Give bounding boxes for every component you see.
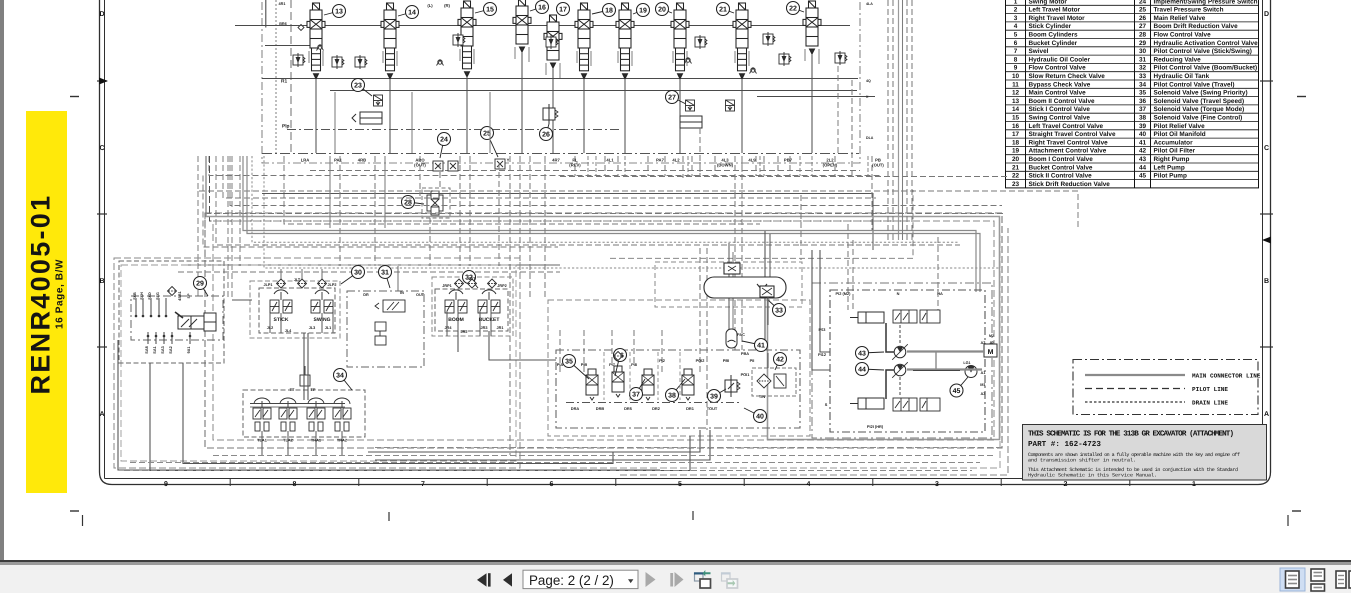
next view button (disabled) [721,572,738,588]
wire valve port left [672,51,674,63]
svg-text:30: 30 [1139,48,1147,55]
svg-text:Boom II Control Valve: Boom II Control Valve [1029,98,1095,105]
valve 32 outer box [432,277,513,336]
legend box [1073,360,1258,415]
pilot oil filter 42 [757,374,786,388]
svg-text:29: 29 [196,281,204,288]
valve 14 Stick I control [381,3,399,79]
svg-text:Boom Cylinders: Boom Cylinders [1029,32,1078,39]
svg-text:6: 6 [1014,40,1018,47]
wire [307,333,309,400]
svg-text:19: 19 [639,8,647,15]
svg-text:MAIN CONNECTOR LINE: MAIN CONNECTOR LINE [1192,373,1261,380]
wire drop [800,195,802,260]
wire bus path [227,156,229,300]
svg-text:JLP2: JLP2 [327,283,336,287]
svg-text:Pilot Control Valve (Stick/Swi: Pilot Control Valve (Stick/Swing) [1154,48,1252,55]
svg-text:D: D [99,11,104,18]
item callout 41 [742,339,768,352]
wire [812,250,830,370]
svg-text:Main Control Valve: Main Control Valve [1029,90,1087,97]
svg-text:24: 24 [440,137,448,144]
svg-text:DR2: DR2 [652,406,661,411]
wire bus path [197,191,199,296]
svg-text:PILOT LINE: PILOT LINE [1192,386,1228,393]
svg-text:LRA: LRA [301,158,310,163]
svg-text:Pilot Relief Valve: Pilot Relief Valve [1154,123,1206,130]
pilot oil manifold 40 box [556,350,800,428]
valve 29 outer box [119,261,224,363]
wire port [150,298,152,316]
item callout 23 [352,79,373,97]
svg-text:PI2 (M2): PI2 (M2) [836,291,852,296]
pump group enclosure [830,290,985,432]
wire drop [892,0,894,240]
wire valve drop [466,77,468,153]
svg-text:Swivel: Swivel [1029,48,1049,55]
bottom toolbar [0,565,1351,593]
wire [303,333,305,400]
svg-text:27: 27 [668,95,676,102]
svg-text:DR5: DR5 [624,406,633,411]
wire vertical gray 2 [898,0,900,240]
wire tank to accumulator [767,297,769,325]
wire drop [755,156,757,176]
item callout 25 [481,127,499,158]
svg-text:32: 32 [1139,65,1147,72]
crop mark top-left [70,96,79,98]
valve small right [726,100,735,111]
junction dot [189,335,192,338]
wire lower bus [124,470,972,472]
svg-text:A: A [99,411,104,418]
wire drop [489,92,491,153]
wire tower drop 32 [490,311,492,336]
crop mark top-right [1297,96,1306,98]
svg-text:Straight Travel Control Valve: Straight Travel Control Valve [1029,131,1116,138]
svg-text:17: 17 [1012,131,1020,138]
port cell divider [867,156,869,176]
wire drop [734,156,736,350]
accumulator 41 [726,329,737,348]
schematic sheet border left inner [104,0,106,479]
svg-text:14: 14 [1012,106,1020,113]
svg-text:N: N [897,291,900,296]
servo cylinder upper [850,312,884,323]
wire bus path [198,156,1078,230]
wire valve drop [389,79,391,153]
wire bus path [216,156,960,245]
svg-text:45: 45 [953,388,961,395]
wire bus path [252,156,958,242]
wire [767,353,769,368]
page number dropdown [523,570,638,588]
svg-text:39: 39 [710,394,718,401]
wire valve drop [583,79,585,153]
svg-text:Accumulator: Accumulator [1154,139,1194,146]
svg-text:M1: M1 [980,382,986,387]
wire drop [871,156,873,230]
svg-text:Plp: Plp [282,124,290,130]
wire drop [902,0,904,240]
svg-text:(OUT): (OUT) [872,163,884,168]
wire valve drop [811,54,813,153]
wire drop [519,156,521,280]
junction dot [171,335,174,338]
servo cylinder lower [850,398,884,409]
wire valve port left [545,63,547,75]
valve 27 boom drift reduction [686,100,695,111]
attachment lines enclosure [114,258,520,468]
svg-text:34: 34 [1139,81,1147,88]
svg-text:7: 7 [421,481,425,488]
svg-text:Stick Drift Reduction Valve: Stick Drift Reduction Valve [1029,181,1111,188]
svg-text:8: 8 [293,481,297,488]
svg-text:LG1: LG1 [963,361,970,365]
wire accumulator feed [728,243,730,329]
wire pilot pump drive [913,370,960,372]
wire pilot header 2 [250,406,345,408]
motor box M [984,344,997,357]
wire bus path [188,264,560,266]
svg-text:25: 25 [1139,7,1147,14]
relief valve right [835,51,847,65]
item callout 35 [563,355,590,380]
item callout 18 [592,4,616,17]
junction dot [135,315,138,318]
svg-text:C: C [99,145,104,152]
border arrow right [1262,237,1271,244]
wire return line to tank [620,228,1008,475]
filter JLT [298,279,307,288]
svg-text:SA8: SA8 [145,346,149,353]
svg-text:DRB: DRB [596,406,605,411]
svg-text:1: 1 [1192,481,1196,488]
wire [118,340,660,470]
svg-text:Boom I Control Valve: Boom I Control Valve [1029,156,1094,163]
svg-text:POI1: POI1 [741,372,751,377]
wire drop [682,156,684,178]
svg-text:TT: TT [290,387,295,392]
manifold filter [614,352,623,361]
svg-text:DR1: DR1 [686,406,695,411]
svg-text:C: C [1264,145,1269,152]
ruler tick [615,479,617,486]
svg-text:DLA: DLA [866,136,874,140]
svg-text:OUT: OUT [416,293,425,297]
wire drop [699,248,701,330]
relief valve stick [453,33,465,47]
wire drop [847,224,849,310]
svg-text:5: 5 [678,481,682,488]
item callout 24 [438,133,451,159]
svg-text:21: 21 [719,7,727,14]
ruler tick [743,479,745,486]
wire drop [617,156,619,176]
wire bus path [209,156,880,176]
svg-text:PAC: PAC [737,332,745,337]
svg-text:Bucket Control Valve: Bucket Control Valve [1029,164,1093,171]
border tick right [1260,346,1273,348]
wire drop [574,156,576,176]
item callout 21 [717,3,735,16]
svg-text:18: 18 [1012,139,1020,146]
valve 15 Swing control [458,1,476,77]
wire drop [647,156,649,176]
svg-text:23: 23 [354,83,362,90]
svg-text:SA1: SA1 [153,346,157,353]
wire valve port right [473,49,475,64]
wire drop [611,330,613,366]
wire drop [374,156,376,266]
svg-text:29: 29 [1139,40,1147,47]
item callout 20 [656,3,673,16]
pilot valve 30 stick tower [270,290,292,323]
wire valve port left [308,51,310,63]
wire lower bus [213,455,994,457]
ruler tick [358,479,360,486]
svg-text:Bucket Cylinder: Bucket Cylinder [1029,40,1078,47]
svg-text:TIN: TIN [759,394,765,399]
wire valve drop [521,52,523,153]
pilot valve 34 tower TLA1 [253,398,271,431]
wire X link [757,96,875,98]
pilot valve 30 swing tower [311,290,333,323]
svg-text:23: 23 [1012,181,1020,188]
parts table [1006,0,1259,188]
svg-text:PBI: PBI [723,358,730,363]
svg-text:4Q: 4Q [866,79,871,83]
svg-text:Swing Motor: Swing Motor [1029,0,1068,5]
wire pump internal link lower [886,370,894,399]
wire port [171,332,173,344]
item callout 17 [557,3,570,16]
valve 31 reducing valve [375,300,405,345]
crop tick bottom center-left [388,512,390,521]
check valve [437,60,444,66]
legend pilot line sample [1085,388,1185,390]
svg-text:(OPEN): (OPEN) [823,163,838,168]
pump regulator upper [893,310,940,323]
svg-text:17: 17 [559,7,567,14]
wire drop [339,156,341,266]
svg-text:16: 16 [538,5,546,12]
wire port [189,332,191,344]
previous view button [694,570,711,588]
wire bus path [203,176,558,248]
wire bus path [610,190,913,258]
filter JRT [468,279,477,288]
svg-text:9: 9 [1014,65,1018,72]
port cell divider [687,156,689,176]
port cell divider [624,156,626,176]
check valve [685,58,692,64]
svg-text:4: 4 [807,481,811,488]
first page button [477,573,491,586]
svg-text:Bypass Check Valve: Bypass Check Valve [1029,81,1091,88]
wire tower drop 32 [457,311,459,336]
svg-text:7: 7 [1014,48,1018,55]
svg-text:DRAIN LINE: DRAIN LINE [1192,400,1228,407]
svg-text:41: 41 [757,343,765,350]
svg-text:THIS SCHEMATIC IS FOR THE 313B: THIS SCHEMATIC IS FOR THE 313B GR EXCAVA… [1028,430,1234,439]
ruler tick [229,479,231,486]
left pump 44 [892,362,908,378]
pilot valve 34 tower TLA2 [279,398,297,431]
svg-text:X: X [866,95,869,99]
svg-text:Stick Cylinder: Stick Cylinder [1029,23,1072,30]
wire drop [789,156,791,176]
svg-text:Right Travel Control Valve: Right Travel Control Valve [1029,139,1109,146]
wire [375,430,710,460]
svg-text:15: 15 [1012,115,1020,122]
wire drop [741,156,743,350]
wire pump 43 output [907,350,984,352]
wire drop [529,156,531,300]
svg-text:PI2I (HR): PI2I (HR) [867,424,884,429]
wire drop [661,330,663,372]
valve 30 outer box [250,281,340,338]
wire drop [714,156,716,176]
wire drop [419,156,421,196]
svg-text:PIB: PIB [581,362,588,367]
valve 20 Boom I control [671,3,689,79]
svg-text:Hydraulic Oil Cooler: Hydraulic Oil Cooler [1029,56,1091,63]
item callout 16 [530,1,549,14]
valve 34 box [243,390,365,437]
valve 19 Attachment control [616,3,634,79]
svg-text:Swing Control Valve: Swing Control Valve [1029,115,1091,122]
svg-text:JLT: JLT [294,278,301,282]
valve 22 Stick II control [803,1,821,54]
wire bus path [284,156,760,224]
svg-text:TP: TP [311,387,316,392]
svg-text:5: 5 [1014,32,1018,39]
svg-text:4R1: 4R1 [279,2,286,6]
valve 32 box [435,289,508,331]
wire pilot supply Plp [262,153,859,155]
valve 17 Straight travel control [544,15,562,68]
wire manifold divider [603,352,605,400]
ruler tick [872,479,874,486]
svg-text:Hydraulic Schematic in this Se: Hydraulic Schematic in this Service Manu… [1028,473,1157,479]
svg-text:R1: R1 [281,79,287,85]
wire valve drop [315,79,317,153]
svg-text:BUCKET: BUCKET [479,317,500,323]
right pump 43 [892,344,908,360]
svg-text:38: 38 [1139,115,1147,122]
svg-text:DR: DR [363,293,369,297]
ruler tick [1129,479,1131,486]
svg-text:18: 18 [605,8,613,15]
port cell divider [595,156,597,176]
crop mark bottom-left [70,510,79,512]
pilot circuit enclosure [205,213,1002,448]
item callout 37 [630,379,646,401]
pilot manifold outer box [548,300,810,436]
svg-text:Hydraulic Oil Tank: Hydraulic Oil Tank [1154,73,1210,80]
wire valve port left [576,51,578,63]
wire drop [911,0,913,240]
pilot valve 32 boom tower [445,290,467,323]
wire manifold divider [679,352,681,400]
wire drop [459,156,461,266]
wire [265,45,312,47]
svg-text:JLP1: JLP1 [263,283,272,287]
solenoid valve 38 fine control [682,369,694,400]
valve 23 stick drift reduction [374,95,383,106]
svg-text:Attachment Control Valve: Attachment Control Valve [1029,148,1107,155]
svg-text:A: A [1264,411,1269,418]
svg-text:24: 24 [1139,0,1147,5]
svg-text:A1: A1 [981,370,987,375]
port cell divider [759,156,761,176]
svg-text:4L9: 4L9 [748,158,756,163]
svg-text:45: 45 [1139,173,1147,180]
svg-text:PA1: PA1 [334,158,343,163]
svg-text:36: 36 [1139,98,1147,105]
svg-text:Main Relief Valve: Main Relief Valve [1154,15,1206,22]
wire valve port right [396,51,398,66]
svg-text:Reducing Valve: Reducing Valve [1154,56,1202,63]
valve 30 box [259,288,335,333]
wire drop [664,156,666,176]
svg-text:Right Travel Motor: Right Travel Motor [1029,15,1086,22]
wire drop [763,156,765,176]
item callout 30 [341,266,365,285]
valve 29 inner box [131,296,223,340]
wire drop [937,237,939,312]
item callout 40 [744,408,767,423]
valve 21 Bucket control [733,3,751,79]
svg-text:2: 2 [1064,481,1068,488]
svg-text:M: M [988,349,994,356]
svg-text:38: 38 [668,393,676,400]
svg-text:Hydraulic Activation Control V: Hydraulic Activation Control Valve [1154,40,1259,47]
svg-text:43: 43 [858,351,866,358]
ruler tick [1000,479,1002,486]
continuous view button [1311,569,1325,591]
wire lower bus [375,447,1002,449]
legend main connector line sample [1085,374,1185,376]
note box [1023,425,1267,481]
wire valve port left [804,49,806,61]
wire bus lower [330,90,857,92]
filter JLP2 [318,279,327,288]
junction dot [165,315,168,318]
last page button (disabled) [670,572,683,587]
item callout 15 [475,3,497,16]
wire drop [439,163,441,188]
crop mark bottom-right [1292,510,1301,512]
svg-text:3: 3 [1014,15,1018,22]
wire drop [469,156,471,266]
svg-text:B: B [1264,278,1269,285]
wire valve port left [617,51,619,63]
svg-text:and transmission shifter in ne: and transmission shifter in neutral. [1028,458,1136,464]
svg-text:26: 26 [1139,15,1147,22]
item callout 29 [194,277,209,297]
wire tower drop 32 [479,311,481,336]
junction dot [147,335,150,338]
check valve [317,45,324,51]
valve 28 flow control [427,191,443,215]
svg-text:4L2: 4L2 [672,158,680,163]
port cell divider [587,156,589,176]
svg-text:20: 20 [658,7,666,14]
legend drain line sample [1085,401,1185,403]
border tick left [97,80,107,82]
